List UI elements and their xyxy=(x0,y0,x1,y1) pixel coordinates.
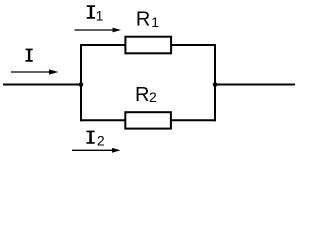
svg-text:2: 2 xyxy=(97,132,105,148)
svg-text:R: R xyxy=(136,9,150,31)
wire: top rail left segment xyxy=(80,44,126,46)
wire: right vertical branch xyxy=(214,44,216,121)
svg-text:1: 1 xyxy=(96,7,104,23)
svg-text:1: 1 xyxy=(151,14,159,30)
node: left junction xyxy=(79,82,84,87)
svg-text:2: 2 xyxy=(149,89,157,105)
label R2 xyxy=(135,84,157,106)
wire: left input xyxy=(3,84,81,86)
label I1 (branch current) xyxy=(87,5,104,23)
label I2 (branch current) xyxy=(86,131,105,149)
svg-text:R: R xyxy=(135,84,149,106)
label I (input current) xyxy=(26,49,33,62)
node: right junction xyxy=(213,82,218,87)
resistor R2 xyxy=(125,112,171,128)
wire: left vertical branch xyxy=(80,44,82,121)
resistor R1 xyxy=(125,37,171,54)
arrow: current I2 xyxy=(72,148,121,153)
wire: right output xyxy=(214,84,295,86)
label R1 xyxy=(136,9,159,31)
wire: top rail right segment xyxy=(171,44,216,46)
arrow: current I1 xyxy=(75,28,122,33)
arrow: current I xyxy=(11,69,59,74)
wire: bottom rail right segment xyxy=(171,119,216,121)
wire: bottom rail left segment xyxy=(80,119,126,121)
